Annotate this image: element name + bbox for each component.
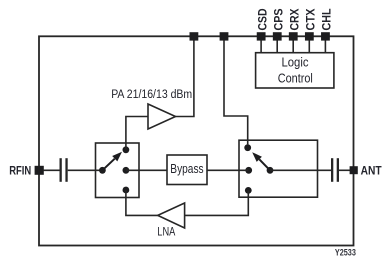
switch SW2 box [239, 140, 318, 197]
wire pad CPS to logic [276, 40, 278, 52]
wire SW2 RX throw to LNA input [185, 190, 249, 215]
op-amp PA (power amplifier) [148, 104, 176, 129]
pin RFIN pad [35, 166, 44, 175]
pin pad P1 (PA out) [190, 32, 199, 40]
bypass block [167, 155, 207, 185]
PA value label [111, 87, 192, 101]
switch SW2 throw dot RX [245, 187, 252, 194]
capacitor C2 (ANT DC block) [331, 158, 339, 182]
wire PA output to pad P1 [176, 40, 194, 116]
wire pad P2 to SW2 TX throw [224, 40, 248, 144]
CSD label [257, 9, 269, 31]
package outline [39, 36, 354, 245]
switch SW1 common dot [99, 167, 106, 174]
svg-text:CSD: CSD [257, 9, 269, 31]
svg-text:Bypass: Bypass [170, 161, 204, 176]
pin pad CTX [305, 32, 314, 40]
switch SW2 common dot [267, 167, 274, 174]
pin ANT pad [350, 166, 358, 174]
switch SW2 throw dot TX [244, 144, 251, 151]
svg-text:CHL: CHL [322, 9, 334, 31]
wire pad CTX to logic [308, 40, 310, 52]
switch SW1 throw dot TX [123, 146, 130, 153]
switch SW2 arrow [252, 152, 270, 170]
pin pad CPS [273, 32, 282, 40]
capacitor C1 (RFIN DC block) [60, 158, 68, 182]
svg-text:Control: Control [278, 71, 313, 86]
switch SW1 throw dot RX [123, 187, 130, 194]
svg-text:RFIN: RFIN [9, 163, 31, 177]
switch SW2 throw dot bypass [245, 167, 252, 174]
pin pad CSD [257, 32, 266, 40]
wire SW2 common to C2 [270, 169, 331, 171]
CRX label [289, 8, 301, 30]
pin pad P2 (to SW2) [220, 32, 229, 40]
wire bypass box to SW2 bypass throw [207, 169, 249, 171]
RFIN label [9, 163, 31, 177]
pin pad CHL [321, 32, 330, 40]
svg-text:ANT: ANT [361, 164, 383, 178]
ANT label [361, 164, 383, 178]
wire SW1 bypass throw to bypass box [126, 169, 167, 171]
switch SW1 box [96, 143, 140, 198]
wire RFIN pad to C1 [43, 169, 60, 171]
switch SW1 throw dot bypass [123, 167, 130, 174]
svg-text:LNA: LNA [157, 224, 175, 238]
wire pad CHL to logic [324, 40, 326, 52]
wire C1 to SW1 common [68, 169, 103, 171]
LNA label [157, 224, 175, 238]
figure number Y2533 [335, 248, 356, 259]
switch SW1 arrow [102, 152, 122, 171]
pin pad CRX [289, 32, 298, 40]
svg-text:CPS: CPS [273, 8, 285, 30]
CTX label [306, 8, 318, 30]
wire C2 to ANT pad [339, 169, 350, 171]
op-amp LNA (low noise amplifier) [158, 203, 185, 228]
CPS label [273, 8, 285, 30]
svg-text:PA 21/16/13 dBm: PA 21/16/13 dBm [111, 87, 192, 101]
logic control block [256, 53, 334, 88]
wire pad CSD to logic [260, 40, 262, 52]
wire LNA output to SW1 RX throw [126, 190, 158, 215]
svg-text:Y2533: Y2533 [335, 248, 356, 259]
wire SW1 TX throw to PA input [126, 117, 148, 150]
wire pad CRX to logic [292, 40, 294, 52]
svg-text:CRX: CRX [289, 8, 301, 30]
CHL label [322, 9, 334, 31]
svg-text:Logic: Logic [282, 55, 309, 70]
svg-text:CTX: CTX [306, 8, 318, 30]
